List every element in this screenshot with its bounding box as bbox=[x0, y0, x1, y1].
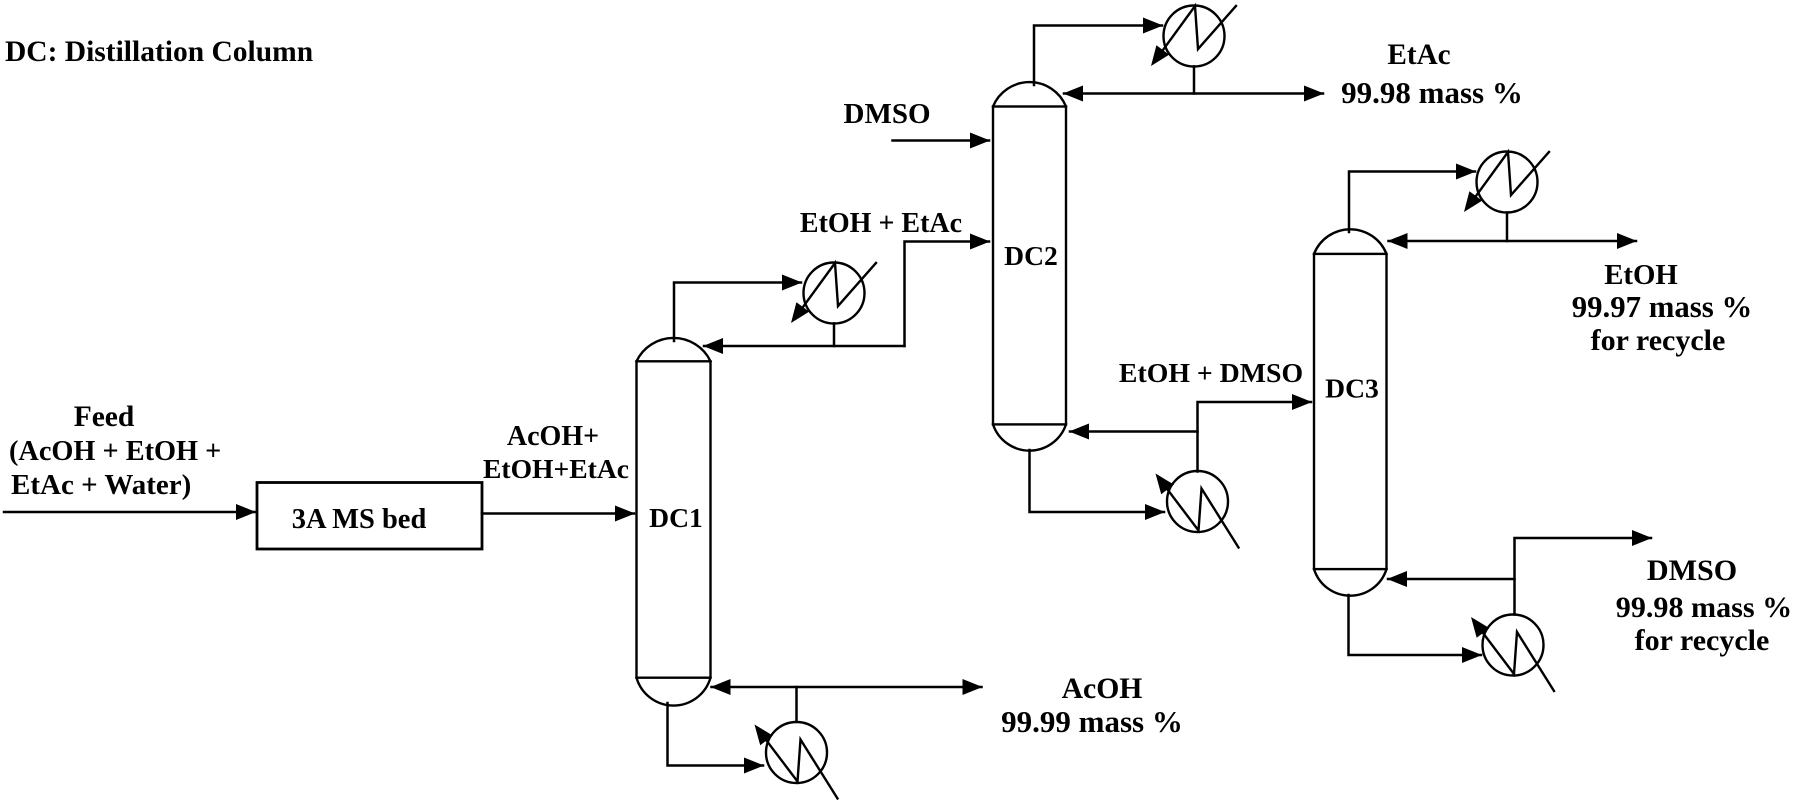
label AcOH 99.99 mass % bbox=[1001, 673, 1183, 739]
wire DC3 overhead vapor to condenser bbox=[1349, 172, 1475, 233]
wire DC1 overhead vapor to condenser bbox=[674, 283, 801, 342]
svg-text:DMSO: DMSO bbox=[844, 98, 931, 130]
svg-text:EtOH + EtAc: EtOH + EtAc bbox=[800, 208, 962, 239]
wire DC3 boilup return bbox=[1388, 578, 1515, 581]
svg-text:AcOH+: AcOH+ bbox=[507, 421, 599, 452]
svg-text:99.98 mass %: 99.98 mass % bbox=[1616, 590, 1792, 624]
wire AcOH product line bbox=[712, 686, 982, 689]
wire DMSO feed into DC2 bbox=[893, 139, 990, 142]
distillation column DC1 bbox=[637, 338, 711, 706]
wire DC1 bottoms to reboiler bbox=[668, 703, 764, 766]
wire DC2 bottoms to reboiler bbox=[1030, 450, 1165, 512]
svg-text:EtOH+EtAc: EtOH+EtAc bbox=[483, 453, 629, 484]
label EtAc 99.98 mass % bbox=[1341, 39, 1523, 110]
wire HX5 stem bbox=[795, 687, 798, 722]
svg-text:DC: Distillation Column: DC: Distillation Column bbox=[5, 36, 313, 68]
wire DC2 reboiler stem and product to DC3 bbox=[1198, 402, 1312, 472]
wire HX2 stem bbox=[1193, 67, 1196, 94]
svg-text:for recycle: for recycle bbox=[1591, 324, 1726, 357]
label AcOH+ EtOH+EtAc bbox=[483, 421, 629, 484]
label EtOH 99.97 mass % for recycle bbox=[1572, 259, 1753, 357]
wire EtAc distillate line bbox=[1064, 92, 1323, 95]
label DMSO 99.98 mass % for recycle bbox=[1616, 553, 1792, 657]
distillation column DC2 bbox=[993, 82, 1066, 451]
wire distillate DC1 to DC2 feed bbox=[905, 242, 990, 347]
condenser HX3 bbox=[1464, 152, 1549, 213]
svg-text:DC1: DC1 bbox=[649, 502, 703, 533]
label Feed (AcOH + EtOH + EtAc + Water) bbox=[9, 401, 221, 501]
svg-text:DC2: DC2 bbox=[1004, 240, 1058, 271]
reboiler HX5 bbox=[755, 722, 838, 799]
wire EtOH distillate line bbox=[1389, 240, 1637, 243]
svg-text:(AcOH + EtOH +: (AcOH + EtOH + bbox=[9, 436, 221, 467]
svg-text:99.98 mass %: 99.98 mass % bbox=[1341, 75, 1523, 110]
wire DC2 overhead vapor to condenser bbox=[1034, 26, 1162, 86]
3A MS bed box bbox=[257, 483, 482, 550]
svg-text:3A MS bed: 3A MS bed bbox=[292, 504, 427, 535]
svg-text:AcOH: AcOH bbox=[1062, 673, 1143, 705]
wire feed arrow into 3A MS bed bbox=[4, 511, 255, 514]
wire DC2 boilup return bbox=[1070, 430, 1198, 433]
svg-text:DC3: DC3 bbox=[1325, 373, 1379, 404]
svg-text:EtOH + DMSO: EtOH + DMSO bbox=[1119, 358, 1303, 389]
wire DC3 reboiler stem and DMSO product bbox=[1515, 538, 1652, 615]
condenser HX1 bbox=[791, 263, 876, 324]
condenser HX2 bbox=[1151, 6, 1236, 67]
svg-text:for recycle: for recycle bbox=[1635, 624, 1770, 657]
svg-text:99.97 mass %: 99.97 mass % bbox=[1572, 290, 1753, 324]
svg-text:99.99 mass %: 99.99 mass % bbox=[1001, 704, 1183, 739]
svg-text:DMSO: DMSO bbox=[1647, 553, 1737, 587]
reboiler HX6 bbox=[1471, 615, 1554, 692]
wire 3A MS bed to DC1 bbox=[482, 512, 634, 515]
wire HX3 stem bbox=[1506, 213, 1509, 242]
wire HX1 stem bbox=[833, 324, 836, 347]
svg-text:Feed: Feed bbox=[74, 401, 135, 433]
wire DC3 bottoms to reboiler bbox=[1349, 595, 1482, 655]
svg-text:EtAc + Water): EtAc + Water) bbox=[11, 469, 191, 501]
wire reflux into DC1 bbox=[704, 345, 905, 348]
svg-text:EtAc: EtAc bbox=[1387, 39, 1450, 71]
distillation column DC3 bbox=[1314, 229, 1387, 595]
svg-text:EtOH: EtOH bbox=[1604, 259, 1678, 291]
reboiler HX4 bbox=[1156, 471, 1239, 548]
